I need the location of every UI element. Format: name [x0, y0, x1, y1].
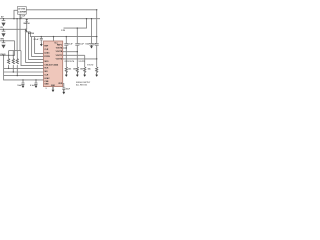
wire vertical x77.3 with cap C7: [76, 28, 78, 43]
resistor R6: [83, 67, 85, 73]
svg-text:REFC: REFC: [57, 44, 63, 46]
wire vertical x21 rail end: [21, 51, 44, 66]
junction pullup drop on 5V rail: [16, 18, 17, 19]
arrow gnd under cap C8: [90, 45, 93, 48]
junction VOUTB wire: [77, 51, 78, 52]
svg-text:10uF: 10uF: [66, 88, 71, 90]
svg-text:GND: GND: [44, 84, 49, 86]
svg-text:LT1790: LT1790: [18, 9, 26, 11]
svg-text:VDD: VDD: [58, 83, 63, 85]
svg-text:0.1uF: 0.1uF: [79, 44, 85, 46]
resistor R5: [76, 67, 78, 73]
junction C1 on 5V rail: [3, 18, 4, 19]
junction D2 anode on 3V rail: [25, 29, 26, 30]
junction C10 on bottom wire: [22, 79, 23, 80]
arrow gnd under R5: [76, 72, 79, 77]
cap C2 left: [3, 29, 5, 31]
svg-text:2.5VREF: 2.5VREF: [18, 12, 27, 14]
junction C11 on bottom wire: [35, 79, 36, 80]
svg-text:BAT54: BAT54: [24, 22, 31, 25]
junction regulator output on 5V rail: [19, 18, 20, 19]
junction R1 bottom on bus wire: [8, 68, 9, 69]
svg-text:SCK: SCK: [44, 67, 49, 69]
ground arrows: [22, 43, 99, 94]
svg-text:VIN: VIN: [0, 39, 4, 41]
resistor R1: [7, 59, 9, 65]
svg-text:GND: GND: [51, 85, 56, 87]
arrow gnd under R7: [95, 72, 98, 77]
wire vertical x14.6: [14, 41, 16, 56]
IC U1: [44, 41, 63, 87]
wire vertical x66.3 with cap C6: [65, 37, 67, 44]
svg-text:LDAC: LDAC: [44, 77, 50, 80]
svg-text:0.1uF: 0.1uF: [30, 85, 36, 87]
wire vertical x17.1: [16, 19, 18, 51]
wire vertical x25.6 staircase: [26, 32, 44, 63]
svg-text:0.1uF: 0.1uF: [68, 44, 74, 46]
svg-text:CS/LD: CS/LD: [0, 54, 6, 56]
box B1 regulator: [18, 7, 27, 15]
wire vout B y51.7: [63, 51, 78, 53]
cap stub x36 bottom left: [35, 80, 37, 83]
wire vertical x20 from box B1: [19, 14, 21, 50]
svg-text:VOUTA: VOUTA: [68, 60, 75, 63]
cap C3 left: [3, 41, 5, 43]
wire vertical x34.6 staircase: [35, 37, 44, 54]
wire x17.3 resistor bottom: [16, 65, 18, 76]
junction x91.5 branch on 5V rail: [91, 18, 92, 19]
wire diode OR node y31.9: [26, 31, 31, 33]
wire bus y72: [4, 71, 44, 73]
resistor R3: [16, 59, 18, 65]
junction C5 on VCC net: [41, 36, 42, 37]
wire rail y28.1 right: [64, 19, 87, 28]
svg-text:VOUTA: VOUTA: [56, 47, 63, 50]
arrow gnd under vdd cap: [62, 90, 65, 95]
junction regulator input on 5V rail: [13, 18, 14, 19]
text labels: [0, 9, 97, 91]
svg-text:CLR: CLR: [44, 49, 49, 51]
wire vertical x84.7: [84, 55, 86, 67]
diode D1: [26, 19, 28, 30]
wire rail y40.8: [0, 40, 15, 42]
svg-text:SDI: SDI: [44, 71, 48, 73]
junction x96.7 on VCC net: [96, 36, 97, 37]
junction R1 on CS/LD wire: [8, 55, 9, 56]
svg-text:PORS: PORS: [44, 56, 50, 58]
wire vertical x8.6 resistor top: [8, 51, 10, 59]
junction x66.3 on VCC net: [66, 36, 67, 37]
cap stub x23 bottom left: [22, 80, 24, 83]
junction C3 on VIN rail: [3, 40, 4, 41]
diode D2: [25, 30, 27, 32]
resistor R7: [95, 67, 97, 73]
junction x96.7 on top rail: [96, 9, 97, 10]
arrow gnd under IC: [52, 87, 55, 93]
svg-text:LTC2624: LTC2624: [50, 63, 59, 66]
wire vertical x91.5 with cap C8: [91, 19, 93, 44]
resistor R4: [65, 67, 67, 73]
svg-text:3.3V: 3.3V: [61, 30, 65, 32]
svg-text:LDAC: LDAC: [44, 51, 50, 54]
ground triangle under C2: [1, 33, 5, 37]
wire vdd branch x63.8: [63, 84, 64, 88]
wire bus y75.6: [4, 75, 44, 77]
svg-text:ALL RES 15k: ALL RES 15k: [76, 83, 87, 86]
svg-text:15k: 15k: [88, 68, 92, 70]
arrow gnd under C5: [40, 43, 43, 46]
arrow gnd under cap x23: [22, 84, 25, 88]
ground triangle under C1: [1, 23, 5, 27]
wire vertical x28.6 staircase: [29, 32, 44, 60]
junction VOUTD wire: [96, 58, 97, 59]
wire vout D y58.9: [63, 58, 97, 60]
junction R2 on CS/LD wire: [13, 55, 14, 56]
junction x86.5 branch on 5V rail: [86, 18, 87, 19]
wire x8.6 resistor bottom: [8, 65, 10, 68]
wire vout A y48: [63, 47, 67, 49]
wire vertical x3.6 down-left: [4, 55, 44, 80]
gnd stub below IC: [52, 87, 54, 90]
arrow gnd under R4: [65, 72, 68, 77]
wire box input stub: [14, 10, 18, 18]
IC top pin stub: [53, 37, 55, 41]
svg-text:0.1uF: 0.1uF: [34, 39, 40, 41]
cap C1 left x3.5: [3, 19, 5, 21]
wire vertical x96.7 with cap C9: [96, 10, 98, 44]
capacitor C5 stub x41.3: [40, 37, 42, 39]
svg-text:VOUTD: VOUTD: [56, 58, 63, 60]
wire y55.3: [0, 54, 15, 56]
wire vertical x13.3 resistor top: [12, 51, 14, 59]
svg-text:CSB: CSB: [44, 81, 49, 83]
junction R3 bottom on bus wire: [17, 75, 18, 76]
arrow gnd under cap x36: [35, 84, 38, 88]
svg-text:VOUTD: VOUTD: [87, 65, 94, 67]
junction R2 bottom on bus wire: [13, 71, 14, 72]
svg-text:10uF: 10uF: [17, 85, 22, 87]
svg-text:VOUTB: VOUTB: [79, 61, 86, 63]
svg-text:16: 16: [45, 88, 47, 90]
wire vcc y36.6: [31, 32, 97, 37]
junction x77.3 on 3.3V stub: [77, 27, 78, 28]
svg-text:BAT54: BAT54: [28, 32, 35, 35]
wire rail y18.7: [0, 18, 100, 20]
wire rail y29.3: [0, 28, 26, 30]
arrow gnd under R6: [83, 72, 86, 77]
svg-text:CLR: CLR: [44, 75, 49, 77]
resistor R2: [12, 59, 14, 65]
wire x13.3 resistor bottom: [12, 65, 14, 72]
junction C2 on 3V rail: [3, 29, 4, 30]
svg-text:3V: 3V: [0, 27, 3, 29]
wire rail pullup y50.6: [9, 50, 21, 52]
wire vertical x31.6 staircase: [32, 37, 44, 57]
junction x3.6 on CS/LD wire: [3, 55, 4, 56]
svg-text:VOUTB: VOUTB: [56, 51, 63, 53]
svg-text:VOUTC: VOUTC: [56, 55, 63, 57]
ground triangle under C3: [1, 45, 5, 49]
svg-text:SDO: SDO: [44, 61, 49, 63]
wire vertical x17.3 resistor top: [16, 51, 18, 59]
svg-text:15k: 15k: [68, 68, 72, 70]
wire bus y68.4: [4, 67, 44, 69]
wire top rail y9.8: [26, 9, 97, 11]
wire vout C y55.3: [63, 54, 85, 56]
junction VOUTA wire: [66, 47, 67, 48]
junction VCC pin on VCC net: [53, 36, 54, 37]
